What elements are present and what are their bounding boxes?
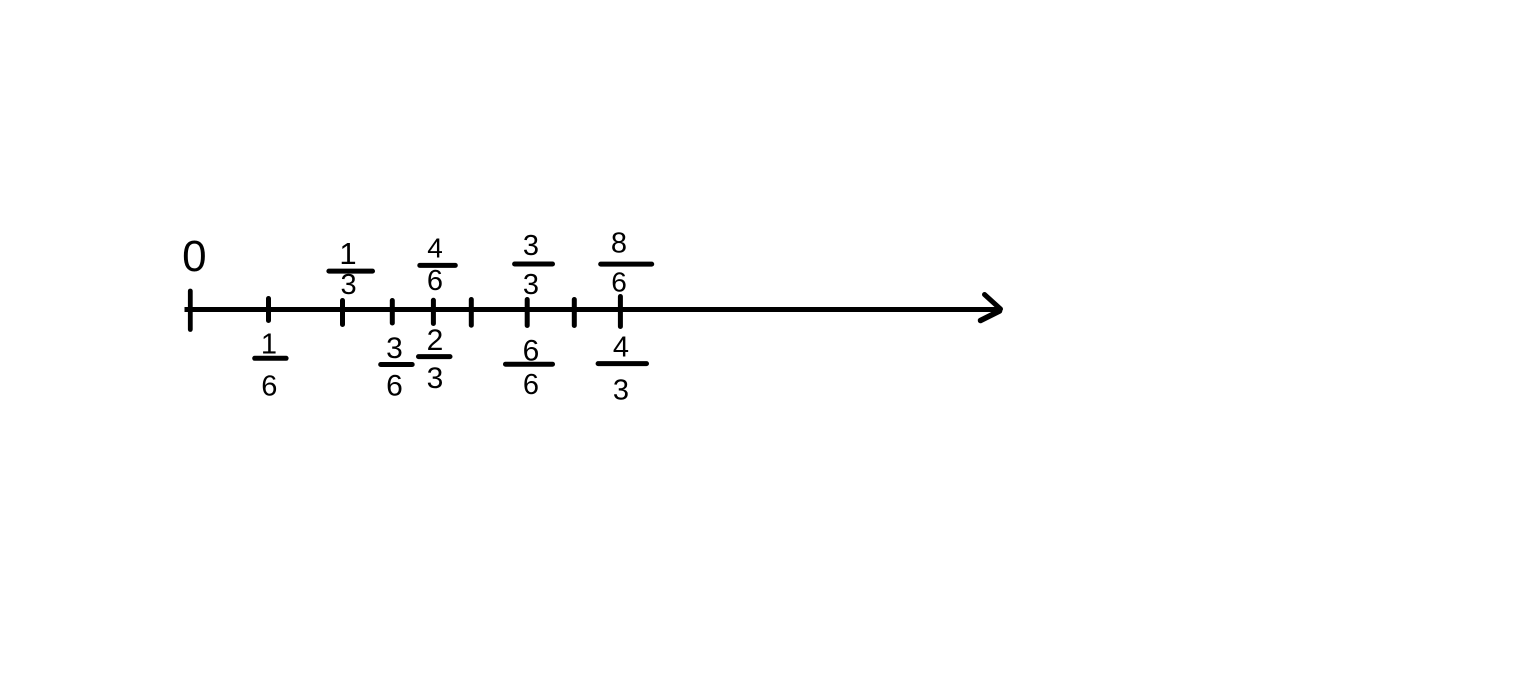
- svg-text:6: 6: [611, 267, 627, 298]
- svg-text:3: 3: [386, 332, 403, 365]
- svg-text:3: 3: [427, 362, 444, 395]
- svg-text:3: 3: [341, 269, 357, 301]
- svg-text:8: 8: [611, 228, 627, 260]
- svg-text:6: 6: [427, 265, 443, 297]
- svg-text:6: 6: [523, 369, 539, 401]
- svg-text:6: 6: [386, 370, 403, 403]
- svg-text:3: 3: [613, 375, 629, 407]
- svg-text:6: 6: [523, 335, 540, 368]
- svg-text:3: 3: [523, 230, 539, 262]
- svg-text:1: 1: [339, 236, 356, 271]
- svg-text:2: 2: [427, 324, 444, 357]
- svg-text:6: 6: [261, 371, 277, 403]
- svg-text:0: 0: [182, 232, 206, 281]
- svg-text:3: 3: [523, 269, 539, 301]
- svg-text:4: 4: [427, 233, 443, 264]
- svg-text:1: 1: [261, 329, 277, 361]
- svg-text:4: 4: [613, 332, 629, 364]
